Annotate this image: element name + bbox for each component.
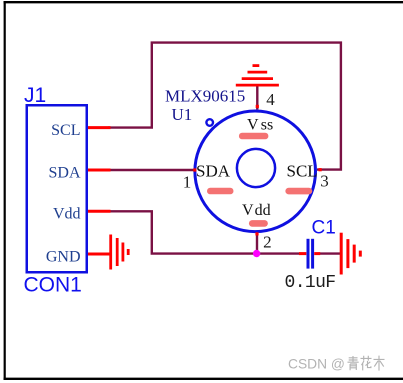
- U1 Vdd pad mark: [249, 220, 268, 227]
- svg-text:SDA: SDA: [48, 165, 80, 182]
- svg-text:GND: GND: [46, 249, 81, 266]
- sheet border frame (decorative): [4, 1, 6, 379]
- svg-text:1: 1: [183, 172, 192, 191]
- svg-text:0.1uF: 0.1uF: [285, 273, 336, 293]
- U1 pin 3 end dot: [319, 168, 322, 171]
- capacitor C1 left pin stub: [299, 252, 306, 255]
- ground symbol right of C1 (bar style): [341, 233, 360, 275]
- U1 SCL pad mark: [285, 188, 312, 195]
- U1 Vss pad mark: [239, 133, 269, 140]
- wire SCL net: J1.SCL to U1 pin 3: [108, 43, 341, 170]
- svg-text:C1: C1: [312, 218, 336, 239]
- svg-text:SCL: SCL: [51, 122, 80, 139]
- svg-text:2: 2: [263, 233, 272, 252]
- capacitor C1 left plate: [307, 239, 310, 269]
- J1 pin stub Vdd: [88, 210, 111, 213]
- svg-text:CSDN @: CSDN @: [288, 356, 345, 371]
- U1 pin 4 end dot: [256, 105, 259, 108]
- U1 pin 2 stem: [256, 233, 258, 254]
- wire Vdd net: J1.Vdd to junction and C1: [108, 211, 301, 253]
- junction dot on Vdd net: [253, 250, 260, 257]
- svg-text:CON1: CON1: [24, 273, 82, 296]
- svg-text:3: 3: [320, 172, 329, 191]
- U1 SDA pad mark: [207, 188, 234, 195]
- U1 pin 4 stem: [256, 86, 258, 110]
- IC U1 MLX90615 body circle: [195, 111, 316, 232]
- svg-text:4: 4: [266, 90, 275, 109]
- svg-text:MLX90615: MLX90615: [165, 87, 245, 106]
- capacitor C1 right plate: [311, 239, 314, 269]
- svg-text:SCL: SCL: [287, 161, 318, 180]
- J1 pin stub SCL: [88, 126, 111, 129]
- svg-text:U1: U1: [172, 105, 193, 124]
- svg-text:Vss: Vss: [247, 117, 273, 134]
- svg-text:SDA: SDA: [196, 161, 231, 180]
- U1 pin 1 end dot: [193, 168, 196, 171]
- capacitor C1 right pin stub: [314, 252, 320, 255]
- connector J1 body: [27, 105, 87, 272]
- wire C1 right to ground: [319, 252, 342, 254]
- wire SDA net: J1.SDA to U1 pin 1: [108, 169, 195, 171]
- svg-text:J1: J1: [24, 84, 46, 107]
- J1 pin stub GND: [88, 253, 110, 256]
- U1 inner circle: [237, 149, 275, 187]
- U1 pin 2 end dot: [255, 232, 258, 235]
- svg-text:Vdd: Vdd: [53, 206, 81, 223]
- ground symbol above U1 pin 4 (earth style pointing up): [236, 66, 279, 86]
- ground symbol at J1 GND (bar style): [111, 235, 129, 270]
- J1 pin stub SDA: [88, 169, 111, 172]
- U1 orientation mark circle: [206, 119, 213, 126]
- svg-text:Vdd: Vdd: [242, 202, 271, 219]
